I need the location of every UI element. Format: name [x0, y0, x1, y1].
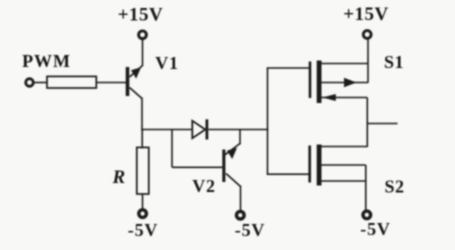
svg-text:+15V: +15V [118, 5, 164, 26]
wire V2 collector up to node line [239, 130, 241, 145]
svg-text:R: R [111, 167, 125, 188]
wire +15V terminal to V1 [142, 39, 144, 66]
svg-text:S1: S1 [384, 52, 404, 72]
wire resistor R to -5V terminal [142, 194, 144, 210]
terminal -5V (below V2) [237, 211, 245, 219]
svg-text:+15V: +15V [343, 4, 389, 25]
wire gate bus to S2 gate [267, 173, 310, 175]
wire V2 emitter to -5V terminal [240, 186, 242, 212]
diode VD [192, 119, 208, 139]
wire node B down from node line [171, 130, 173, 168]
terminal -5V (below S2) [363, 211, 371, 219]
MOSFET S1 [309, 61, 369, 104]
svg-text:-5V: -5V [128, 220, 158, 240]
terminal +15V (right) [363, 31, 371, 39]
terminal +15V (left) [139, 31, 147, 39]
wire output stub [367, 123, 397, 125]
svg-text:S2: S2 [384, 176, 404, 196]
svg-text:V1: V1 [155, 53, 179, 73]
wire +15V terminal to S1 source and body [367, 39, 369, 83]
wire gate bus vertical [267, 68, 269, 175]
wire V1 emitter down to node A [141, 98, 143, 131]
wire base resistor to V1 base [96, 82, 126, 84]
wire gate bus to S1 gate [267, 67, 310, 69]
svg-text:PWM: PWM [22, 51, 71, 71]
MOSFET S2 [308, 145, 367, 186]
svg-text:-5V: -5V [235, 220, 265, 240]
wire node A down to resistor R [141, 130, 143, 149]
wire S2 source and body to -5V terminal [365, 165, 367, 211]
svg-text:V2: V2 [192, 176, 216, 196]
terminal PWM input [26, 79, 34, 87]
wire node A to diode anode [141, 129, 192, 131]
resistor R1 (PWM series base resistor) [47, 76, 96, 88]
wire PWM terminal to base resistor [34, 82, 48, 84]
transistor V1 [126, 66, 143, 99]
transistor V2 [222, 144, 240, 187]
wire node B to V2 base [172, 166, 223, 168]
terminal -5V (below R) [139, 210, 147, 218]
svg-text:-5V: -5V [360, 219, 390, 239]
resistor R [137, 147, 149, 194]
wire S1 drain down to output node [366, 98, 368, 148]
wire diode cathode to gate bus [209, 129, 269, 131]
